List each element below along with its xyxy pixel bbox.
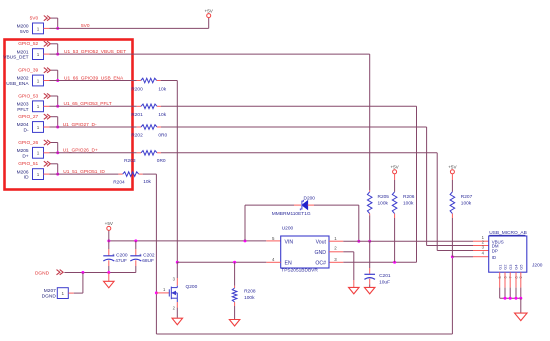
svg-text:GPIO_51: GPIO_51 bbox=[18, 161, 38, 167]
svg-text:R206: R206 bbox=[403, 194, 415, 200]
svg-text:100k: 100k bbox=[378, 201, 389, 207]
svg-text:M201: M201 bbox=[17, 49, 29, 55]
svg-text:+ C200: + C200 bbox=[112, 252, 128, 258]
svg-text:1: 1 bbox=[62, 291, 65, 296]
svg-text:R204: R204 bbox=[113, 180, 125, 186]
svg-text:Q200: Q200 bbox=[186, 284, 198, 290]
svg-text:GPIO_39: GPIO_39 bbox=[18, 68, 38, 74]
svg-text:0R0: 0R0 bbox=[157, 158, 166, 164]
svg-text:47UF: 47UF bbox=[115, 258, 127, 264]
svg-text:G3: G3 bbox=[508, 264, 513, 270]
svg-text:R200: R200 bbox=[131, 86, 143, 92]
svg-text:R203: R203 bbox=[124, 158, 136, 164]
svg-text:D+: D+ bbox=[22, 153, 28, 159]
svg-text:+ C202: + C202 bbox=[139, 252, 155, 258]
svg-text:GPIO_27: GPIO_27 bbox=[18, 114, 38, 120]
svg-text:G1: G1 bbox=[497, 264, 502, 270]
svg-text:100k: 100k bbox=[244, 295, 255, 301]
svg-text:USB_ENA: USB_ENA bbox=[6, 81, 29, 87]
svg-text:J200: J200 bbox=[532, 262, 543, 268]
svg-text:5V0: 5V0 bbox=[20, 29, 29, 35]
svg-text:68UF: 68UF bbox=[142, 258, 154, 264]
svg-text:M203: M203 bbox=[17, 102, 29, 108]
svg-text:10k: 10k bbox=[143, 179, 151, 185]
svg-text:GND: GND bbox=[314, 250, 326, 256]
svg-text:1: 1 bbox=[37, 172, 40, 177]
svg-text:DGND: DGND bbox=[35, 270, 50, 276]
svg-text:ID: ID bbox=[24, 175, 29, 181]
svg-text:R201: R201 bbox=[131, 112, 143, 118]
svg-text:+5V: +5V bbox=[390, 165, 399, 170]
svg-text:0R0: 0R0 bbox=[158, 133, 167, 139]
svg-text:GPIO_52: GPIO_52 bbox=[18, 41, 38, 47]
svg-text:PFLT: PFLT bbox=[17, 107, 28, 113]
svg-text:10uF: 10uF bbox=[379, 279, 390, 285]
svg-text:R202: R202 bbox=[131, 133, 143, 139]
svg-text:1: 1 bbox=[37, 125, 40, 130]
svg-text:R207: R207 bbox=[461, 194, 473, 200]
svg-text:5V0: 5V0 bbox=[30, 15, 39, 21]
svg-text:GPIO_26: GPIO_26 bbox=[18, 140, 38, 146]
svg-text:1: 1 bbox=[37, 151, 40, 156]
svg-text:VBUS_DET: VBUS_DET bbox=[3, 55, 28, 61]
svg-text:M200: M200 bbox=[17, 24, 29, 30]
svg-text:M207: M207 bbox=[44, 288, 56, 294]
svg-text:100k: 100k bbox=[461, 201, 472, 207]
svg-text:+5V: +5V bbox=[105, 221, 114, 226]
svg-text:+5V: +5V bbox=[205, 8, 214, 13]
svg-text:10k: 10k bbox=[158, 86, 166, 92]
svg-text:M202: M202 bbox=[17, 76, 29, 82]
svg-text:DGND: DGND bbox=[42, 294, 57, 300]
svg-text:VIN: VIN bbox=[285, 239, 294, 245]
svg-text:GPIO_53: GPIO_53 bbox=[18, 93, 38, 99]
svg-text:Vout: Vout bbox=[316, 239, 327, 245]
svg-text:+5V: +5V bbox=[448, 165, 457, 170]
svg-text:1: 1 bbox=[37, 104, 40, 109]
svg-text:ID: ID bbox=[492, 255, 496, 260]
svg-text:D200: D200 bbox=[304, 196, 316, 202]
svg-text:OC#: OC# bbox=[315, 260, 326, 266]
svg-text:D-: D- bbox=[24, 128, 29, 134]
svg-text:U200: U200 bbox=[282, 226, 294, 232]
svg-text:M204: M204 bbox=[17, 122, 29, 128]
svg-text:100k: 100k bbox=[403, 201, 414, 207]
svg-text:TPS2051BDBVR: TPS2051BDBVR bbox=[281, 268, 318, 274]
svg-text:DP: DP bbox=[492, 249, 498, 254]
svg-text:1: 1 bbox=[37, 78, 40, 83]
svg-text:EN: EN bbox=[285, 260, 292, 266]
svg-text:R208: R208 bbox=[244, 288, 256, 294]
svg-text:1: 1 bbox=[37, 52, 40, 57]
svg-text:G5: G5 bbox=[518, 264, 523, 270]
svg-text:10k: 10k bbox=[158, 112, 166, 118]
svg-text:R205: R205 bbox=[378, 194, 390, 200]
svg-text:C201: C201 bbox=[379, 273, 391, 279]
svg-text:MMBRM110ET1G: MMBRM110ET1G bbox=[272, 211, 311, 217]
svg-text:M206: M206 bbox=[17, 169, 29, 175]
svg-text:M205: M205 bbox=[17, 148, 29, 154]
svg-text:1: 1 bbox=[37, 26, 40, 31]
